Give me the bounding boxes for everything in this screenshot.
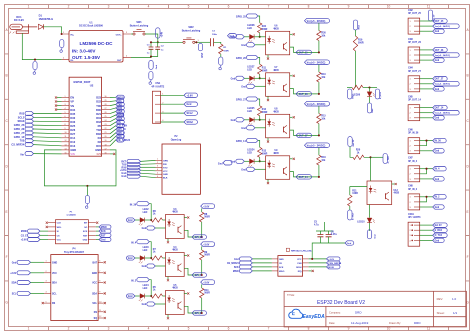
node MOSI: [116, 95, 125, 99]
svg-text:8: 8: [99, 281, 100, 283]
svg-text:28: 28: [105, 104, 107, 106]
svg-text:5: 5: [157, 173, 158, 175]
svg-text:R12: R12: [262, 109, 267, 111]
svg-text:Vin: Vin: [20, 153, 24, 156]
svg-text:OUT+: OUT+: [116, 34, 123, 36]
svg-text:7: 7: [99, 271, 100, 273]
resistor R13 500R: [258, 147, 262, 157]
svg-text:DC 6-9V: DC 6-9V: [14, 18, 24, 22]
svg-text:OUT_25: OUT_25: [299, 52, 309, 55]
node SCL: [116, 99, 124, 103]
svg-text:SO: SO: [84, 227, 87, 229]
svg-text:1: 1: [28, 5, 30, 9]
svg-text:IRQ: IRQ: [298, 271, 302, 273]
node MISO: [96, 226, 99, 228]
ground capsule below C1 C2: [149, 60, 153, 69]
svg-text:RX0: RX0: [96, 108, 102, 112]
svg-text:+3.6V: +3.6V: [10, 273, 17, 275]
svg-text:D27: D27: [70, 132, 75, 136]
svg-text:2: 2: [157, 162, 158, 164]
svg-text:Gnd: Gnd: [375, 234, 377, 239]
svg-text:Gnd: Gnd: [142, 304, 147, 306]
wire opto collector to output: [184, 268, 202, 275]
svg-text:11: 11: [99, 310, 101, 312]
svg-text:VCC: VCC: [57, 240, 62, 242]
svg-text:Gnd: Gnd: [347, 243, 352, 245]
svg-text:+3.6V: +3.6V: [187, 94, 194, 97]
svg-text:3: 3: [108, 327, 110, 331]
switch SW1 Button-Latching: [130, 21, 149, 35]
power flag Vcc(+5 - 24VDC): [305, 60, 330, 65]
svg-text:SDA: SDA: [92, 292, 97, 295]
node +3.6V: [141, 169, 156, 172]
svg-text:E_TX3: E_TX3: [353, 213, 355, 220]
title block: [284, 291, 466, 327]
svg-text:Vcc(+5 - 24VDC): Vcc(+5 - 24VDC): [307, 62, 326, 65]
svg-text:4P / UART2: 4P / UART2: [151, 85, 165, 88]
node TX0: [141, 163, 156, 166]
svg-text:LED3: LED3: [143, 247, 150, 249]
svg-text:Vcc(+5 - 24VDC): Vcc(+5 - 24VDC): [307, 20, 326, 23]
svg-text:MISO: MISO: [101, 227, 107, 229]
node RXT: [141, 160, 156, 161]
module U2 ESP32_DOIT: [62, 77, 111, 156]
svg-text:Gnd: Gnd: [241, 86, 246, 88]
svg-text:F: F: [467, 255, 469, 259]
node IN_2: [420, 196, 433, 198]
svg-text:SCL2: SCL2: [18, 116, 25, 119]
ground capsule below LED10: [367, 230, 371, 239]
resistor R9 500R: [201, 246, 203, 250]
svg-text:CN8: CN8: [408, 186, 413, 188]
resistor R8 500R: [201, 208, 203, 212]
svg-text:Gnd: Gnd: [121, 176, 126, 178]
node OUT_26: [420, 49, 433, 51]
svg-text:IN_4: IN_4: [435, 168, 441, 171]
node Vcc(+5 - 24VDC): [420, 54, 433, 56]
svg-text:500R: 500R: [262, 154, 268, 156]
wire LED to opto: [254, 119, 266, 121]
svg-text:LED10: LED10: [357, 222, 365, 224]
svg-text:3P_IN_4: 3P_IN_4: [408, 160, 418, 163]
svg-text:GPIO_14: GPIO_14: [14, 136, 25, 139]
svg-text:GND: GND: [83, 240, 88, 242]
svg-text:Gnd: Gnd: [128, 258, 133, 260]
node OUT_14: [420, 107, 433, 109]
resistor R26 10k: [318, 23, 320, 31]
wire DC jack to LM2596 IN-: [22, 33, 61, 59]
svg-text:RXT: RXT: [121, 161, 126, 163]
svg-text:8: 8: [308, 5, 310, 9]
svg-text:OUT_26: OUT_26: [435, 50, 444, 52]
svg-text:B: B: [6, 74, 8, 78]
svg-text:OUT: OUT: [117, 60, 122, 62]
node TX0: [116, 102, 125, 106]
wire gpio to resistor: [258, 16, 260, 23]
resistor R18 on RX3 row: [352, 85, 363, 89]
svg-text:Gnd: Gnd: [187, 103, 192, 106]
svg-text:+3.6V: +3.6V: [120, 170, 127, 172]
stub opto base: [290, 33, 293, 35]
svg-text:7: 7: [268, 327, 270, 331]
resistor R1 100R: [219, 44, 223, 54]
net flag E_RX3: [375, 89, 379, 99]
svg-text:4N35: 4N35: [394, 192, 400, 195]
node Vcc(+5 - 24VDC): [420, 25, 433, 27]
svg-text:Button-Latching: Button-Latching: [130, 24, 149, 27]
module P4 Tiny RTC-DS1307: [44, 248, 106, 321]
node Gnd: [141, 176, 156, 178]
svg-text:Gnd: Gnd: [372, 108, 374, 113]
svg-text:Gnd: Gnd: [142, 266, 147, 268]
svg-text:IN_2: IN_2: [435, 197, 441, 199]
module P2 OpenLog: [120, 135, 200, 194]
svg-text:Sheet:: Sheet:: [437, 311, 445, 315]
svg-text:D25: D25: [70, 124, 75, 128]
power flag Ext 3V top right: [428, 10, 432, 21]
svg-text:1N4007RLG: 1N4007RLG: [39, 17, 54, 21]
svg-text:9: 9: [99, 292, 100, 294]
node GPI_4: [116, 131, 125, 135]
net flag E_TX3: [349, 206, 351, 210]
svg-text:OUT_14: OUT_14: [435, 107, 444, 110]
svg-text:SCK: SCK: [83, 231, 88, 233]
svg-text:Vcc(+5 - 24VDC): Vcc(+5 - 24VDC): [307, 103, 326, 106]
svg-text:LED: LED: [247, 28, 252, 30]
node Gnd: [420, 30, 433, 32]
node O_TX3: [420, 234, 433, 236]
svg-text:4: 4: [65, 108, 66, 110]
svg-text:GPI_4: GPI_4: [195, 274, 202, 277]
svg-text:Gnd: Gnd: [231, 78, 236, 80]
svg-text:BLK: BLK: [163, 178, 168, 180]
svg-text:4: 4: [148, 327, 150, 331]
module U13 NRF24L01+PA+LNA: [272, 248, 312, 276]
resistor R19 500R: [353, 20, 357, 30]
svg-text:E: E: [6, 210, 8, 214]
svg-text:Gnd: Gnd: [435, 31, 440, 33]
wire SW2 to C3: [195, 41, 210, 43]
svg-text:Gnd: Gnd: [435, 60, 440, 62]
svg-text:GPIO_25: GPIO_25: [14, 124, 25, 127]
module P1 sm42b60: [48, 211, 96, 243]
node OUT_27: [420, 78, 433, 80]
svg-text:TX2: TX2: [96, 128, 101, 132]
net flag O_TX3: [371, 156, 384, 158]
svg-text:100u: 100u: [212, 34, 218, 36]
wire join pins 1-2: [420, 169, 427, 174]
node OUT_26: [296, 92, 311, 96]
svg-text:Drawn By:: Drawn By:: [389, 321, 401, 325]
svg-text:U2: U2: [90, 83, 94, 87]
svg-text:CN4: CN4: [408, 67, 413, 70]
svg-text:1: 1: [157, 159, 158, 161]
svg-text:LED: LED: [247, 111, 252, 113]
wire input to LED row: [149, 204, 151, 220]
svg-text:REV:: REV:: [437, 297, 444, 301]
svg-text:TXO: TXO: [163, 167, 168, 169]
wire R19 to RX3 row: [355, 51, 357, 88]
svg-text:4N35: 4N35: [273, 69, 279, 72]
resistor R11 500R: [258, 64, 262, 74]
stubs P1 CLK WOL: [46, 222, 48, 224]
wire gpio to resistor: [258, 141, 260, 148]
svg-text:CN3: CN3: [408, 39, 413, 41]
node Gnd: [161, 103, 184, 105]
svg-text:GPIO_27: GPIO_27: [236, 99, 247, 102]
svg-text:500R: 500R: [358, 42, 364, 44]
svg-text:GPIO_14: GPIO_14: [236, 140, 247, 143]
svg-text:LED2: LED2: [143, 209, 150, 211]
svg-text:E_RX3: E_RX3: [435, 230, 443, 232]
capacitor C5 4.7u: [317, 235, 323, 237]
svg-text:13: 13: [65, 144, 67, 146]
svg-text:R14: R14: [204, 289, 209, 292]
svg-text:CS_E: CS_E: [21, 235, 27, 237]
svg-text:CN2: CN2: [408, 10, 413, 12]
svg-text:LED: LED: [143, 212, 148, 214]
svg-text:VCC: VCC: [92, 283, 97, 285]
stub opto base: [184, 217, 187, 219]
svg-text:4N35: 4N35: [273, 27, 279, 30]
svg-text:F: F: [6, 255, 8, 259]
svg-text:sm42b60: sm42b60: [66, 213, 76, 216]
svg-text:OUT_27: OUT_27: [435, 79, 444, 81]
node SDA2: [161, 121, 184, 123]
svg-text:+3.6V: +3.6V: [203, 207, 210, 209]
node Gnd: [420, 150, 433, 152]
svg-text:Gnd: Gnd: [435, 118, 440, 120]
svg-text:8: 8: [65, 124, 66, 126]
svg-text:D15: D15: [96, 144, 101, 148]
svg-text:CSN_NRF24: CSN_NRF24: [328, 262, 342, 265]
svg-text:+14V: +14V: [161, 31, 164, 37]
stub opto base: [290, 116, 293, 118]
wire opto collector to output: [290, 47, 319, 52]
svg-text:SCL2: SCL2: [187, 112, 194, 115]
wire D1 to LM2596 IN+: [43, 27, 61, 34]
svg-text:SDA: SDA: [52, 282, 57, 285]
svg-text:R15: R15: [321, 116, 326, 118]
svg-text:GPI_36: GPI_36: [195, 236, 204, 239]
svg-text:0.47u: 0.47u: [331, 233, 338, 236]
svg-text:29: 29: [105, 100, 107, 102]
svg-text:Gnd: Gnd: [231, 161, 236, 163]
node Gnd: [420, 117, 433, 119]
svg-text:CN11: CN11: [408, 214, 414, 216]
svg-text:3: 3: [157, 166, 158, 168]
svg-text:4N35: 4N35: [172, 211, 178, 214]
svg-text:D35: D35: [70, 112, 75, 116]
svg-text:D23: D23: [96, 96, 101, 100]
svg-text:12: 12: [99, 316, 101, 318]
svg-text:IN_36: IN_36: [130, 203, 137, 206]
svg-text:Gnd: Gnd: [218, 164, 223, 166]
svg-text:VCC: VCC: [163, 171, 168, 173]
node SCK: [96, 230, 99, 232]
svg-text:ESP32 Dev Board V2: ESP32 Dev Board V2: [317, 300, 365, 306]
svg-text:DC-DC Buck LM2596: DC-DC Buck LM2596: [79, 25, 103, 28]
node RX0: [116, 106, 124, 110]
svg-text:+3.6V: +3.6V: [203, 245, 210, 247]
wire +14V node bus: [158, 41, 183, 43]
svg-text:3: 3: [65, 104, 66, 106]
svg-text:11: 11: [427, 5, 431, 9]
svg-text:DS: DS: [52, 303, 56, 305]
node Gnd: [420, 239, 433, 241]
node E_RX3: [420, 229, 433, 231]
power flag Ext 3V: [348, 137, 352, 147]
stub opto base: [290, 75, 293, 77]
stub U12 pin: [392, 183, 395, 185]
svg-text:25: 25: [105, 116, 107, 118]
test point probe on IN+ node: [60, 40, 64, 48]
svg-text:R24: R24: [262, 25, 267, 28]
node GPI_4: [192, 273, 207, 277]
ground capsule top right of SW2 area: [228, 34, 237, 39]
svg-text:5: 5: [188, 5, 190, 9]
svg-text:LED: LED: [143, 288, 148, 290]
node SCL2: [161, 112, 184, 114]
node OUT_14: [296, 175, 311, 179]
connector DC1 barrel jack: [10, 15, 38, 34]
svg-text:O_TX3: O_TX3: [435, 235, 443, 237]
svg-text:GPIO_25: GPIO_25: [236, 16, 247, 19]
svg-text:CE_NRF24: CE_NRF24: [227, 262, 239, 265]
svg-text:OUT_26: OUT_26: [299, 93, 309, 96]
ground probe under ESP32: [86, 186, 88, 196]
svg-text:CLK: CLK: [57, 223, 62, 225]
svg-text:4N35: 4N35: [273, 110, 279, 113]
svg-text:4N35: 4N35: [172, 249, 178, 252]
svg-text:LED: LED: [247, 153, 252, 155]
svg-text:GND: GND: [52, 262, 57, 264]
svg-text:9: 9: [65, 128, 66, 130]
node OUT_25: [296, 50, 311, 54]
svg-text:7: 7: [65, 120, 66, 122]
svg-text:11: 11: [65, 136, 67, 138]
stub opto base: [184, 255, 187, 257]
svg-text:D21: D21: [96, 112, 101, 116]
svg-text:DS: DS: [94, 312, 98, 314]
svg-text:GPIO_27: GPIO_27: [14, 132, 25, 135]
svg-text:Gnd: Gnd: [241, 45, 246, 47]
svg-text:D33: D33: [70, 120, 75, 124]
resistor R7 1k: [151, 256, 162, 260]
svg-text:VN: VN: [70, 104, 74, 108]
svg-text:Company:: Company:: [329, 311, 341, 315]
svg-text:VCC: VCC: [297, 259, 302, 261]
regulator module U1 LM2596 DC-DC: [62, 21, 131, 62]
node GPI_2: [116, 134, 124, 138]
svg-text:4N35: 4N35: [172, 287, 178, 290]
decoupling caps C5 C6: [312, 243, 345, 259]
wire LED to opto: [254, 160, 266, 162]
svg-text:3V3: 3V3: [96, 152, 101, 156]
svg-text:RST: RST: [83, 235, 88, 237]
svg-text:SCL: SCL: [12, 293, 17, 295]
svg-text:VIN: VIN: [70, 152, 74, 156]
stub 3V3 pin: [110, 153, 113, 155]
resistor R6 1k: [151, 218, 162, 222]
ground flag below LED26: [367, 103, 371, 113]
svg-text:2: 2: [65, 100, 66, 102]
stub opto pin3: [267, 179, 269, 182]
svg-text:15: 15: [65, 152, 67, 154]
node OUT_27: [296, 133, 311, 137]
diode D1 1N4007RLG: [38, 14, 53, 30]
svg-text:500R: 500R: [262, 29, 268, 31]
svg-text:18: 18: [105, 144, 107, 146]
svg-text:10: 10: [387, 5, 391, 9]
svg-text:Button-Latching: Button-Latching: [182, 29, 201, 32]
node Gnd: [96, 239, 99, 241]
svg-text:SCK: SCK: [234, 267, 239, 269]
svg-text:7: 7: [268, 5, 270, 9]
svg-text:Tiny RTC-DS1307: Tiny RTC-DS1307: [64, 251, 85, 254]
node CS_ETH: [116, 124, 125, 128]
svg-text:BAT: BAT: [92, 261, 97, 264]
connector CN1 4P UART2: [151, 82, 197, 124]
svg-text:B: B: [467, 74, 469, 78]
svg-text:DC1: DC1: [16, 15, 22, 19]
svg-text:LED: LED: [143, 250, 148, 252]
svg-text:D1: D1: [39, 14, 43, 18]
svg-text:IN-: IN-: [71, 60, 74, 62]
resistor R5 1k: [151, 294, 162, 298]
svg-text:9: 9: [348, 5, 350, 9]
svg-text:D5: D5: [98, 124, 102, 128]
svg-text:D18: D18: [96, 120, 101, 124]
svg-text:Gnd: Gnd: [128, 220, 133, 222]
svg-text:D19: D19: [96, 116, 101, 120]
svg-text:26: 26: [105, 112, 107, 114]
svg-text:SDA2: SDA2: [187, 121, 194, 124]
svg-text:MOSI: MOSI: [328, 267, 334, 269]
svg-text:OUT: 1.5-35V: OUT: 1.5-35V: [72, 55, 101, 60]
svg-text:EN: EN: [70, 96, 74, 100]
svg-text:D13: D13: [70, 144, 75, 148]
svg-text:GRN: GRN: [163, 160, 168, 162]
svg-text:4: 4: [46, 292, 47, 294]
capacitor C2 1u: [155, 47, 160, 49]
svg-text:MOSI: MOSI: [296, 267, 302, 269]
svg-text:LED: LED: [247, 70, 252, 72]
net flag RX3 vertical: [348, 89, 352, 99]
svg-text:GND: GND: [70, 148, 76, 152]
svg-text:D32: D32: [70, 116, 75, 120]
svg-text:Gnd: Gnd: [435, 89, 440, 91]
svg-text:GPI_2: GPI_2: [195, 312, 202, 315]
svg-text:Gnd: Gnd: [241, 169, 246, 171]
svg-text:SCK: SCK: [101, 231, 106, 233]
svg-text:Ext 3V: Ext 3V: [435, 224, 442, 227]
svg-text:DRD: DRD: [414, 321, 421, 325]
svg-text:GND: GND: [163, 174, 168, 176]
svg-text:SCL: SCL: [92, 303, 97, 305]
svg-text:CN7: CN7: [408, 158, 413, 160]
svg-text:R16: R16: [321, 157, 326, 159]
svg-text:4N35: 4N35: [273, 152, 279, 155]
svg-text:RX2: RX2: [96, 132, 102, 136]
power flag Vcc(+5 - 24VDC): [305, 18, 330, 23]
svg-text:5: 5: [65, 112, 66, 114]
node Gnd: [141, 173, 156, 174]
resistor R24 500R: [258, 23, 262, 33]
power flag +3.6V: [201, 204, 215, 209]
ground probe below C1 C2: [149, 72, 153, 80]
svg-text:Gnd: Gnd: [121, 173, 126, 175]
